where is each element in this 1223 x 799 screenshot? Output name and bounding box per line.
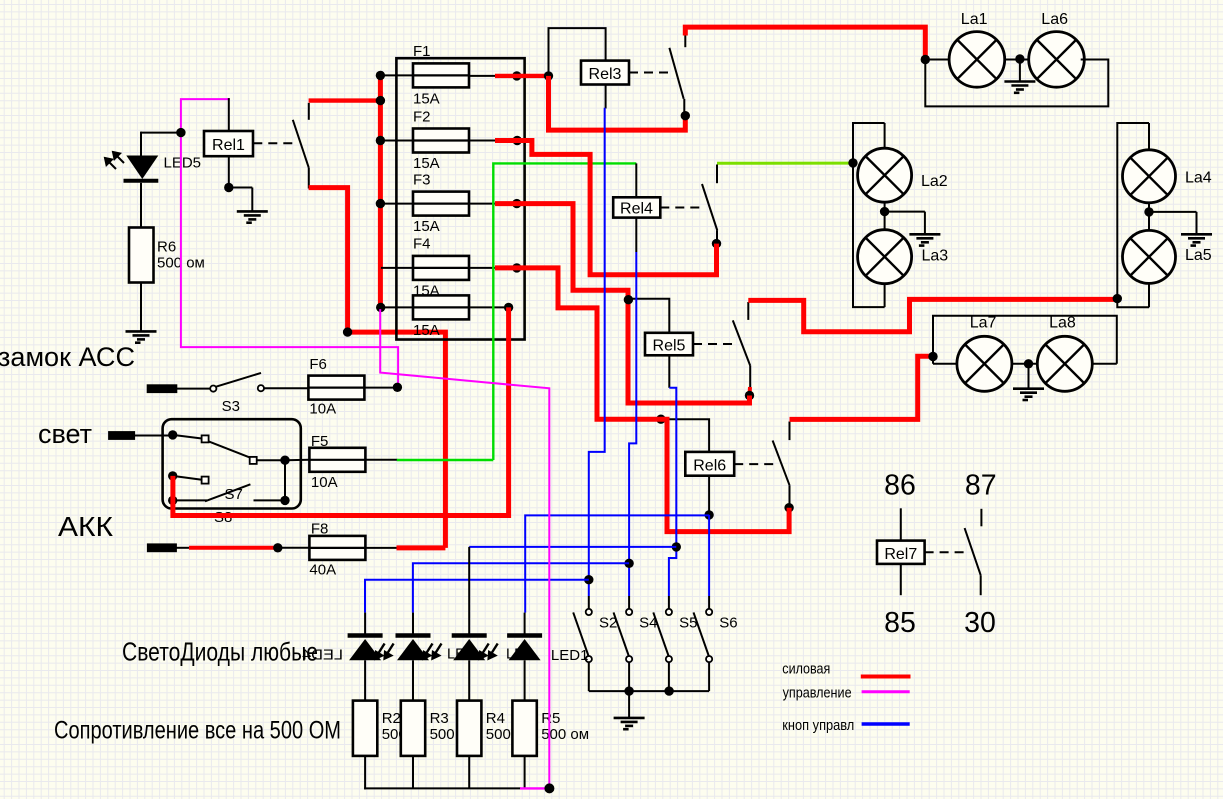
svg-text:силовая: силовая [782,661,830,677]
label F5 value [311,474,338,491]
LED D2 cathode bar [396,633,431,638]
label F1 value [413,91,440,108]
switch contact Rel5 stub [747,302,749,320]
svg-text:Rel6: Rel6 [693,457,726,474]
lamp La6 [1029,32,1085,88]
node F7 input [376,303,385,312]
svg-text:замок АСС: замок АСС [0,342,135,372]
LED D4 cathode bar [507,633,542,638]
svg-text:Rel4: Rel4 [620,200,653,217]
svg-text:F2: F2 [413,108,431,125]
ground buttons [614,718,645,729]
node Rel5 contact [745,391,754,400]
svg-text:Rel5: Rel5 [653,337,686,354]
label LED mirrored [302,647,343,664]
node Rel5 coil supply [624,295,633,304]
node power corner [343,327,352,336]
switch contact Rel1 blade [293,120,309,168]
svg-text:500: 500 [430,726,455,743]
node Rel6 contact [784,503,793,512]
wire Rel7 pin85 [900,564,902,595]
wire R2 bottom [364,756,366,789]
wire La3 bottom pin [884,284,886,307]
wire Rel5 coil hook [629,299,669,333]
wire La1 feed [925,59,951,61]
node F3 output [512,199,521,208]
label F7 value [413,322,440,339]
label zamok ACC [0,342,135,372]
wire LED3 top pin [468,547,470,634]
ground La4-La5 [1181,234,1212,245]
svg-text:S7: S7 [225,486,243,503]
label LED hidden b [506,647,534,663]
fuse F2 [413,129,469,153]
label Rel7 [884,546,917,563]
resistor R6 [129,228,154,283]
wire yellow-green to La2 [717,162,853,165]
svg-text:F5: F5 [311,433,329,450]
node magenta bus junction [544,783,554,793]
svg-text:15A: 15A [413,322,440,339]
lamp La4 [1123,150,1176,203]
wire AKK stub [176,547,189,549]
switch contact Rel5 blade [733,320,750,365]
label F3 value [413,218,440,235]
wire La7-La8 link [1011,363,1038,365]
wire LED5 cathode to R6 [140,183,142,228]
node fuse bus Rel1 [376,96,385,105]
label F8 value [309,562,336,579]
wire S7 vertical link [284,460,286,500]
relay coil Rel4 [613,197,660,217]
label R6 value [157,239,205,272]
wire S6 bottom stub [708,662,710,691]
label La7 [970,315,997,332]
svg-text:F6: F6 [309,356,327,373]
switch contact Rel4 stub [716,165,718,184]
label F6 [309,356,327,373]
wire LED5 anode to control node [141,132,181,156]
wire S7 pole link [173,435,202,439]
label Rel3 [589,66,622,83]
svg-text:S6: S6 [719,615,737,632]
node Rel4 contact [712,239,721,248]
label La1 [961,11,988,28]
node LED5-control junction [176,128,185,137]
wire S5 top stub [668,596,670,609]
svg-text:Rel3: Rel3 [589,66,622,83]
node bus S4 [624,686,633,695]
dashed link Rel5 [693,343,736,345]
label S7 [225,486,243,503]
node F1 input [376,71,385,80]
label F5 [311,433,329,450]
wire S7 upper out [257,459,285,461]
svg-text:La2: La2 [921,173,948,190]
wire La1-La6 link [1004,59,1028,61]
node bus S5 [664,686,673,695]
label R2 [382,710,407,743]
switch contact Rel6 bottom [789,485,791,508]
label Rel4 [620,200,653,217]
resistor R5 [512,701,536,756]
svg-text:Rel1: Rel1 [212,137,245,154]
node Rel6 coil supply [656,415,665,424]
wire blue LED2 line [413,563,629,612]
wire LED1 top pin [364,613,366,634]
wire power Rel1-contact bottom chain [309,188,446,548]
LED D3 cathode bar [452,633,487,638]
fuse F4 [413,256,469,280]
switch contact Rel4 blade [702,184,717,231]
wire La6 return loop [925,60,1108,107]
svg-text:R5: R5 [541,710,560,727]
node La7 feed [928,352,937,361]
label F6 value [309,401,336,418]
wire power F1 to Rel3 contact [549,76,686,130]
wire Rel5 coil bottom [668,355,670,388]
dashed link Rel7 [925,551,968,553]
svg-text:15A: 15A [413,218,440,235]
label F3 [413,171,431,188]
svg-text:Сопротивление все на 500 ОМ: Сопротивление все на 500 ОМ [54,717,341,745]
label R4 [486,710,511,743]
wire LED D1 to R2 [364,660,366,700]
label La5 [1185,247,1212,264]
switch contact Rel3 blade [669,48,683,99]
svg-text:свет: свет [38,419,92,449]
svg-text:управление: управление [783,685,852,701]
label La2 [921,173,948,190]
node F4 output [512,263,521,272]
LED D3 [453,639,485,660]
dashed link Rel3 [629,72,674,74]
wire power fuse bus [378,75,383,307]
svg-text:La4: La4 [1185,169,1212,186]
switch S3 [210,373,264,392]
wire Rel4 coil bottom [635,218,637,252]
label AKK [58,511,114,542]
wire bus ground stub [628,691,630,718]
node F1 output [512,71,521,80]
wire AKK power [189,546,278,550]
wire S2 top stub [588,596,590,609]
label S2 [599,615,617,632]
wire blue Rel4 to S4 [629,252,636,596]
node F3 input [376,199,385,208]
switch S4 [614,609,633,662]
LED D1 cathode bar [348,633,383,638]
relay coil Rel5 [645,333,693,356]
wire La2 top pin [884,123,886,148]
wire blue Rel5 to S5 [669,388,676,596]
wire S2 bottom stub [588,662,590,691]
svg-text:500: 500 [486,726,511,743]
svg-text:F1: F1 [413,43,431,60]
wire F5 output [365,459,397,461]
switch contact Rel3 bottom [683,99,685,116]
wire La1 ground stub [1019,59,1021,81]
fuse F6 [308,376,364,400]
switch S2 [573,609,592,662]
wire F3 input [381,203,413,205]
label F4 [413,236,431,253]
dashed link Rel4 [660,207,701,209]
wire S7 lower out stub [254,499,286,501]
label F1 [413,43,431,60]
wire LED D4 to R5 [524,660,526,700]
fuse F8 [309,536,365,560]
svg-text:R2: R2 [382,710,401,727]
relay coil Rel7 [877,541,925,564]
label R3 [430,710,455,743]
wire blue Rel3 to S2 [589,108,605,596]
svg-text:S3: S3 [222,398,240,415]
wire LED4 top pin [524,613,526,634]
svg-text:30: 30 [964,607,996,639]
svg-text:10A: 10A [311,474,338,491]
relay coil Rel3 [581,61,629,85]
wire magenta control ACC loop [181,99,398,385]
lamp La3 [858,230,912,284]
label pin30 [964,607,996,639]
terminal svet-ACC stub S3 [148,386,176,392]
wire La5 bottom pin [1148,284,1150,308]
lamp La7 [957,336,1012,391]
wire Rel1 coil bottom [229,156,253,211]
wire S7 lower left stub [173,499,207,501]
switch contact Rel7 bottom [980,575,982,595]
switch contact Rel1 bottom stub [308,168,310,189]
label S5 [679,615,697,632]
wire S3 left [176,388,210,390]
switch contact Rel6 stub [789,422,791,441]
wire magenta bus tail [520,787,549,789]
relay coil Rel6 [685,452,734,476]
switch S6 [694,609,713,662]
ground La1-La6 [1004,82,1035,93]
switch contact Rel3 stub [684,35,686,48]
fuse F3 [413,192,469,216]
ground La7-La8 [1013,389,1044,400]
LED D1 emission arrows [376,644,394,659]
svg-text:40A: 40A [309,562,336,579]
wire power F7 to S7 box [173,307,509,515]
wire Rel7 pin86 [900,508,902,540]
label legend upravlenie [783,685,852,701]
label pin87 [965,470,997,502]
wire La4 ground branch [1149,212,1197,234]
node S2-LED1 branch [584,575,593,584]
label svetodiody [122,636,318,666]
node S5-LED3 branch [672,542,681,551]
label S8 [214,509,232,526]
LED D1 [349,639,381,660]
lamp La2 [858,148,912,202]
node La2-La3 [880,207,889,216]
resistor R4 [457,701,481,756]
node La1 feed [921,55,930,64]
dashed link Rel1 [253,142,297,144]
label F2 value [413,155,440,172]
node S7 lower out [280,496,289,505]
ground La2-La3 [909,234,940,245]
ground LED5 [126,331,157,342]
svg-text:R4: R4 [486,710,505,727]
wire F1 power [495,74,549,78]
node F2 input [376,136,385,145]
svg-text:87: 87 [965,470,997,502]
wire LED D2 to R3 [412,660,414,700]
wire R3 bottom [412,756,414,789]
switch contact Rel7 blade [965,528,981,575]
node Rel1 coil bottom [224,183,233,192]
wire Rel3 coil bottom [605,85,607,109]
node La7-La8 [1024,359,1033,368]
wire Rel6 coil bottom [708,476,710,515]
wire La4 top pin [1148,123,1150,150]
wire R5 bottom [524,756,526,789]
switch contact Rel6 blade [773,441,790,486]
node La4 red feed [1113,294,1122,303]
svg-text:86: 86 [884,470,916,502]
terminal svet stub [109,432,133,438]
LED D3 emission arrows [480,644,498,659]
wire green F5 to Rel4 [397,163,637,460]
svg-text:F4: F4 [413,236,431,253]
label LED1 [551,647,589,664]
fuse F1 [413,63,469,87]
label La8 [1049,315,1076,332]
label pin86 [884,470,916,502]
wire power Rel6 to La7 [790,356,934,419]
wire R6 to ground [140,283,142,332]
switch S8 terminal [202,477,209,484]
wire F2 output [469,140,500,142]
wire resistor bus [364,788,521,789]
wire AKK to F8 [282,547,309,549]
wire svet to S7 [134,435,173,437]
wire blue LED1 line [365,580,589,613]
label F4 value [413,283,440,300]
svg-text:СветоДиоды любые: СветоДиоды любые [122,636,318,666]
wire La7 feed [933,363,957,365]
wire power F3 to Rel5 contact [495,204,750,403]
wire F3 output [469,203,500,205]
legend button line [862,722,910,725]
svg-text:15A: 15A [413,155,440,172]
svg-text:F3: F3 [413,171,431,188]
lamp La8 [1037,336,1092,391]
wire Rel6 coil hook [661,419,709,452]
svg-text:Rel7: Rel7 [884,546,917,563]
label R5 [541,710,589,743]
wire Rel4 coil top [635,163,637,197]
wire F8 output power [397,545,446,550]
wire power Rel5 staircase to La4 [748,299,1117,331]
label LED hidden a [447,647,475,663]
wire F7 input [381,306,413,308]
LED D5 [124,156,159,181]
switch contact Rel5 bottom [749,366,751,387]
wire power Rel1-contact top [309,98,381,102]
LED D2 [397,639,429,660]
svg-text:La8: La8 [1049,315,1076,332]
wire Rel1 coil top pin [228,98,230,131]
svg-text:La5: La5 [1185,247,1212,264]
wire S7 out to F5 [285,459,309,461]
wire Rel5 contact bottom red [748,387,753,396]
switch S7 lower blade [205,484,250,501]
switch S5 [653,609,672,662]
node S7 input [168,430,177,439]
fuse F7 [413,295,469,319]
svg-text:10A: 10A [309,401,336,418]
wire S6 top stub [708,596,710,609]
fuse F5 [309,448,365,472]
wire Rel3 coil hook [549,28,606,76]
wire S3 to F6 [264,387,308,389]
node F1 power branch [544,71,553,80]
wire F6 output [364,387,397,389]
switch contact Rel7 stub [980,509,982,527]
LED D5 emission arrows [105,152,124,169]
node S7 output [280,456,289,465]
node F6 output [393,383,402,392]
lamp La5 [1123,230,1176,283]
wire power F4 to Rel6 contact [495,268,789,532]
wire La7 frame [933,316,1117,364]
wire La2 ground branch [885,212,925,234]
node Rel3 contact [681,111,690,120]
node La2 green feed [848,158,857,167]
svg-text:15A: 15A [413,91,440,108]
label F8 [311,521,329,538]
label Rel5 [653,337,686,354]
wire S4 top stub [628,596,630,609]
wire power F2 to Rel4 contact [495,141,717,275]
node S4-LED2 branch [624,559,633,568]
wire R4 bottom [468,756,470,789]
resistor R3 [401,701,425,756]
label F2 [413,108,431,125]
node F7 output [504,303,513,312]
dashed link Rel6 [734,463,778,465]
wire La2 frame [853,123,885,307]
svg-text:АКК: АКК [58,511,114,542]
wire blue LED3 line [469,546,676,548]
node S7 lower left [168,496,177,505]
wire F7 output [469,306,509,308]
label Rel6 [693,457,726,474]
label Rel1 [212,137,245,154]
fuse box outline [396,58,524,339]
terminal AKK stub [148,545,175,551]
wire F2 input [381,140,413,142]
wire blue LED4 line [525,515,709,612]
svg-text:LED5: LED5 [164,155,202,172]
wire LED D3 to R4 [468,660,470,700]
lamp La1 [949,32,1005,88]
ground Rel1 [237,211,268,222]
wire button ground bus [589,690,709,692]
svg-text:кноп управл: кноп управл [782,718,854,734]
label pin85 [884,607,916,639]
wire La4 frame [1117,123,1149,307]
label legend silovaya [782,661,830,677]
wire F4 input [381,267,413,269]
wire S5 bottom stub [668,662,670,691]
